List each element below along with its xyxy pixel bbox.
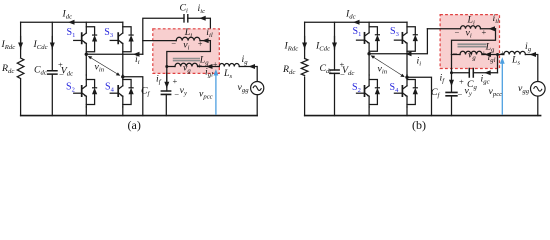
svg-text:−: − [340,69,345,79]
svg-text:−: − [59,70,64,80]
svg-text:+: + [197,61,202,71]
svg-text:−: − [453,48,458,58]
svg-text:(b): (b) [412,118,426,132]
svg-text:−: − [174,89,179,99]
svg-text:+: + [173,76,178,86]
svg-text:+: + [198,38,203,48]
svg-text:+: + [482,48,487,58]
svg-text:+: + [213,59,218,69]
svg-text:−: − [455,27,460,37]
svg-text:+: + [58,60,63,70]
svg-text:−: − [171,38,176,48]
svg-text:+: + [340,60,345,70]
svg-text:+: + [500,48,505,58]
svg-text:−: − [171,61,176,71]
svg-text:+: + [459,77,464,87]
svg-text:(a): (a) [128,118,141,132]
svg-text:−: − [458,90,463,100]
svg-text:+: + [482,27,487,37]
